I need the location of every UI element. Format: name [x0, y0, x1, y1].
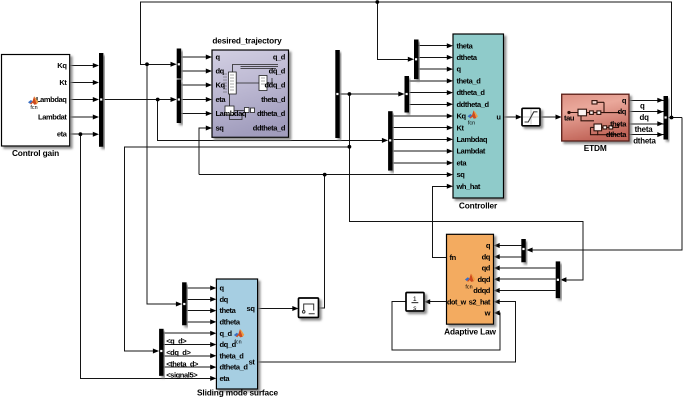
svg-text:dtheta_d: dtheta_d [257, 109, 286, 118]
wire qd bus branch to demuxF [125, 147, 350, 351]
svg-text:ddtheta_d: ddtheta_d [253, 124, 286, 133]
svg-text:Kq: Kq [457, 112, 467, 121]
wire demuxD outs to adaptive [498, 268, 556, 291]
demux E (q dq theta dtheta to sliding) [182, 282, 187, 325]
svg-text:ddq_d: ddq_d [265, 81, 286, 90]
block Control gain [2, 55, 70, 159]
svg-text:dtheta_d: dtheta_d [220, 363, 249, 372]
svg-text:dq: dq [220, 295, 229, 304]
svg-text:theta: theta [457, 41, 474, 50]
svg-text:desired_trajectory: desired_trajectory [212, 36, 282, 46]
svg-text:eta: eta [216, 95, 227, 104]
wire theta bus right branch to demuxC [530, 118, 682, 251]
svg-text:Lambdat: Lambdat [38, 113, 67, 122]
wire u to saturation [504, 116, 519, 118]
svg-text:dtheta_d: dtheta_d [457, 88, 486, 97]
svg-text:eta: eta [57, 130, 68, 139]
wire theta bus top [141, 2, 683, 118]
svg-text:theta: theta [220, 306, 237, 315]
wire st to s2_hat [258, 302, 516, 362]
svg-text:fcn: fcn [468, 121, 475, 127]
svg-text:dq: dq [216, 67, 225, 76]
wire Kt [70, 82, 95, 84]
wire theta bus branch to demuxE [147, 64, 178, 304]
svg-text:theta: theta [635, 125, 654, 134]
svg-text:dtheta: dtheta [606, 130, 627, 139]
mux M2 after desired_trajectory [335, 50, 340, 138]
wire demuxE outs [187, 288, 213, 322]
svg-text:fcn: fcn [234, 340, 241, 346]
svg-text:fcn: fcn [465, 285, 472, 291]
svg-text:Lambdat: Lambdat [457, 147, 486, 156]
svg-text:dtheta: dtheta [220, 318, 241, 327]
wire demuxC outs to adaptive [498, 246, 522, 257]
block Integrator 1/s [406, 293, 424, 312]
svg-text:dtheta: dtheta [633, 136, 656, 145]
block Controller [453, 34, 504, 211]
wire Lambdaq [70, 99, 95, 101]
signal labels under demuxF wires [166, 336, 199, 379]
svg-text:dq_d: dq_d [269, 67, 286, 76]
wire demuxA out dq [181, 70, 208, 72]
demux B (Kq eta Lambdaq) [177, 63, 182, 123]
svg-text:dq: dq [482, 252, 491, 261]
svg-text:q: q [640, 102, 645, 111]
svg-text:Kt: Kt [457, 123, 465, 132]
svg-text:s: s [413, 305, 417, 312]
block Saturation [522, 108, 540, 126]
svg-text:dqd: dqd [477, 275, 490, 284]
svg-text:<signal5>: <signal5> [166, 371, 198, 380]
demux A (q dq for desired_trajectory) [177, 49, 182, 79]
svg-text:Sliding mode surface: Sliding mode surface [197, 388, 278, 398]
wire ETDM theta to mux [629, 123, 664, 125]
svg-text:Adaptive Law: Adaptive Law [444, 327, 496, 337]
arrowheads [93, 43, 664, 381]
svg-text:Kq: Kq [57, 61, 67, 70]
wire demuxB out Lambdaq [181, 113, 208, 115]
wire demux1 outs [418, 46, 449, 69]
wire gains branch to demux3 [158, 100, 385, 141]
demux Dd (qd dqd ddqd flipped) [556, 261, 561, 298]
svg-text:theta_d: theta_d [457, 77, 482, 86]
wire demuxB out eta [181, 99, 208, 101]
block Adaptive Law [444, 234, 496, 336]
svg-text:Kt: Kt [59, 78, 67, 87]
demux D1 (theta dtheta q to controller) [414, 40, 419, 80]
wire qd bus mux to demux2 [340, 93, 401, 95]
wire theta bus branch to demux1 [377, 2, 410, 59]
svg-text:theta_d: theta_d [261, 95, 286, 104]
svg-text:wh_hat: wh_hat [456, 182, 481, 191]
mux M1 after control gain [99, 53, 103, 147]
wire saturation to ETDM [540, 116, 558, 118]
svg-text:s2_hat: s2_hat [469, 297, 491, 306]
svg-text:fn: fn [450, 253, 457, 262]
wire eta [70, 133, 95, 135]
demux D3 (Kq..eta to controller) [388, 111, 393, 170]
svg-text:eta: eta [457, 159, 468, 168]
wire demux2 outs [409, 81, 449, 104]
svg-text:Control gain: Control gain [12, 148, 59, 158]
block ETDM [562, 94, 629, 153]
demux D2 (theta_d dtheta_d ddtheta_d) [405, 76, 410, 113]
preview drawing inside desired_trajectory [225, 65, 278, 120]
svg-text:q_d: q_d [220, 329, 233, 338]
block Sliding mode surface [197, 279, 278, 398]
wire sq line from memory [199, 128, 449, 308]
wire eta branch to sliding mode [80, 134, 212, 378]
svg-text:<q_d>: <q_d> [166, 336, 187, 345]
svg-text:dot_w: dot_w [447, 297, 467, 306]
demux F (q_d..signal5 to sliding) [159, 329, 164, 376]
block desired_trajectory [212, 36, 289, 138]
svg-text:sq: sq [247, 304, 256, 313]
svg-text:<dq_d>: <dq_d> [166, 348, 191, 357]
svg-text:dq: dq [640, 113, 650, 122]
mux M3 after ETDM [664, 96, 669, 140]
wire demux3 outs [392, 116, 449, 163]
svg-text:Lambdaq: Lambdaq [216, 109, 247, 118]
svg-text:tau: tau [564, 113, 575, 122]
svg-text:ETDM: ETDM [584, 143, 607, 153]
signal labels q dq theta dtheta [633, 102, 656, 146]
svg-text:ddtheta_d: ddtheta_d [457, 100, 490, 109]
svg-text:q_d: q_d [273, 53, 286, 62]
svg-text:sq: sq [457, 170, 466, 179]
svg-text:<theta_d>: <theta_d> [166, 359, 199, 368]
svg-text:fcn: fcn [30, 105, 37, 111]
svg-text:dq: dq [618, 107, 627, 116]
svg-text:sq: sq [216, 124, 225, 133]
svg-text:dtheta: dtheta [457, 53, 478, 62]
wire demuxB out Kq [181, 84, 208, 86]
svg-text:1: 1 [413, 296, 417, 303]
wire Kq control gain to mux [70, 65, 95, 67]
svg-text:theta: theta [610, 119, 627, 128]
wire mux1 out to demuxB [103, 99, 172, 101]
svg-text:eta: eta [220, 374, 231, 383]
wire ETDM dtheta to mux [629, 134, 664, 136]
wire dot_w to integrator [428, 301, 447, 303]
svg-text:qd: qd [482, 264, 491, 273]
svg-text:Controller: Controller [459, 201, 498, 211]
svg-text:Kq: Kq [216, 81, 226, 90]
svg-text:Lambdaq: Lambdaq [457, 135, 488, 144]
wire fn to wh_hat [433, 186, 449, 257]
demux C (q dq flipped) [521, 239, 526, 262]
wire integrator out to w [392, 302, 500, 350]
svg-text:st: st [249, 357, 256, 366]
wire Lambdat [70, 116, 95, 118]
svg-text:theta_d: theta_d [220, 351, 245, 360]
wire sliding sq to memory [258, 308, 295, 310]
wire demuxF outs [164, 333, 213, 367]
wire ETDM q to mux [629, 99, 664, 101]
wire qd bus down branch [349, 94, 583, 280]
svg-text:ddqd: ddqd [473, 286, 491, 295]
wire ETDM dq to mux [629, 111, 664, 113]
preview drawing inside ETDM [568, 101, 620, 135]
wire demuxA out q [181, 56, 208, 58]
block Memory [299, 298, 319, 318]
svg-text:Lambdaq: Lambdaq [36, 95, 67, 104]
svg-text:w: w [484, 309, 491, 318]
